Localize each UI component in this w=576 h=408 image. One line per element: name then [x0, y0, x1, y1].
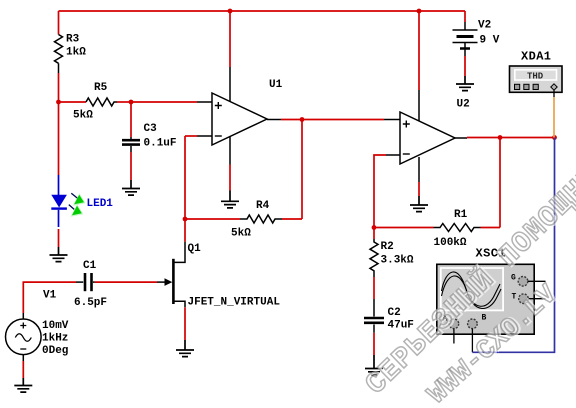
svg-text:1kΩ: 1kΩ — [66, 47, 86, 59]
transistor Q1 — [157, 242, 280, 309]
op-amp U2 — [400, 99, 470, 165]
resistor R2 — [370, 228, 414, 278]
wire gate Q1 — [95, 281, 157, 283]
svg-text:V2: V2 — [478, 20, 491, 32]
svg-text:U2: U2 — [457, 99, 470, 111]
ground V2 — [456, 76, 474, 91]
node out feedback — [498, 135, 503, 140]
svg-text:C3: C3 — [144, 123, 158, 135]
wire R1 up — [499, 138, 501, 228]
svg-text:R2: R2 — [381, 241, 394, 253]
node R1 R2 — [372, 225, 377, 230]
battery V2 — [453, 20, 500, 57]
ground C3 — [122, 180, 140, 195]
wire LED branch — [58, 102, 60, 175]
wire feedback minus U1 — [185, 135, 197, 137]
ground V1 — [14, 378, 32, 392]
wire node to U1 + — [131, 101, 197, 103]
wire V1 to C1 — [23, 282, 76, 313]
capacitor C1 — [74, 260, 107, 309]
svg-text:10mV: 10mV — [42, 320, 69, 332]
svg-text:R3: R3 — [66, 34, 80, 46]
ground C2 — [365, 355, 383, 375]
svg-text:6.5pF: 6.5pF — [74, 297, 107, 309]
node top U2 — [417, 9, 422, 14]
instrument XSC1 — [437, 247, 546, 353]
op-amp U1 — [212, 79, 283, 145]
wire V2 to ground — [464, 56, 466, 76]
wire LED to ground — [58, 229, 60, 247]
svg-text:0Deg: 0Deg — [42, 345, 68, 357]
svg-text:0.1uF: 0.1uF — [144, 138, 177, 150]
wire R2 to C2 — [373, 277, 375, 299]
svg-text:Q1: Q1 — [188, 243, 202, 255]
svg-text:JFET_N_VIRTUAL: JFET_N_VIRTUAL — [188, 297, 281, 309]
node junction left — [56, 100, 61, 105]
source V1 — [6, 290, 69, 362]
ground U2 — [410, 196, 428, 212]
wire U2 minus — [374, 155, 386, 228]
node out probe — [552, 135, 557, 140]
wire top rail — [59, 10, 466, 12]
U1 output pin — [267, 119, 281, 121]
svg-text:5kΩ: 5kΩ — [231, 228, 251, 240]
svg-text:LED1: LED1 — [87, 198, 114, 210]
svg-text:C2: C2 — [388, 307, 401, 319]
wire left rail to node — [58, 73, 60, 102]
wire U2 VEE — [418, 182, 420, 196]
wire Q1 source — [184, 307, 186, 340]
instrument XDA1 — [510, 50, 563, 98]
wire U2 VCC — [418, 11, 420, 90]
node U1 out — [300, 117, 305, 122]
wire out to U2 + — [302, 119, 384, 121]
wire VCC U1 — [229, 11, 231, 67]
wire left rail upper — [58, 11, 60, 35]
resistor R5 — [59, 82, 132, 122]
U1 VEE pin — [229, 137, 231, 165]
wire R4 up to out node — [301, 120, 303, 220]
svg-text:1kHz: 1kHz — [42, 333, 68, 345]
svg-text:THD: THD — [527, 72, 544, 82]
resistor R4 — [185, 200, 302, 240]
U1 - pin stub — [197, 135, 212, 137]
U1 VCC pin — [229, 67, 231, 102]
U2 output pin — [455, 137, 467, 139]
svg-text:5kΩ: 5kΩ — [73, 110, 93, 122]
capacitor C2 — [364, 299, 414, 333]
svg-text:V1: V1 — [43, 290, 57, 302]
wire C2 to ground — [373, 333, 375, 355]
svg-text:B: B — [482, 314, 487, 323]
U2 - pin stub — [386, 154, 400, 156]
svg-text:R4: R4 — [256, 200, 270, 212]
node R4 — [183, 217, 188, 222]
svg-text:U1: U1 — [269, 79, 283, 91]
ground LED — [50, 247, 68, 262]
watermark — [359, 146, 576, 408]
wire U1 VEE — [229, 165, 231, 191]
svg-text:T: T — [512, 293, 517, 302]
U2 VCC pin — [418, 90, 420, 121]
capacitor C3 — [122, 102, 177, 152]
wire drain Q1 — [184, 219, 186, 242]
wire XDA1 orange — [553, 97, 555, 138]
LED LED1 — [51, 175, 113, 227]
wire XSC1 blue — [472, 138, 554, 353]
LED arrow 2 — [69, 205, 74, 210]
svg-text:C1: C1 — [83, 260, 97, 272]
LED arrow 1 — [71, 193, 77, 198]
wire U1 out — [281, 119, 302, 121]
wire top to V2 — [464, 11, 466, 22]
wire C3 to ground — [130, 152, 132, 180]
svg-text:R5: R5 — [94, 82, 108, 94]
svg-text:100kΩ: 100kΩ — [434, 237, 467, 249]
resistor R3 — [55, 34, 87, 74]
wire U2 out — [467, 137, 555, 139]
node top U1 — [228, 9, 233, 14]
node junction C3 — [129, 100, 134, 105]
svg-text:R1: R1 — [454, 209, 468, 221]
svg-text:9 V: 9 V — [480, 35, 500, 47]
ground U1 — [221, 191, 239, 208]
svg-text:3.3kΩ: 3.3kΩ — [381, 255, 414, 267]
resistor R1 — [374, 209, 500, 249]
U2 VEE pin — [418, 157, 420, 182]
svg-text:XDA1: XDA1 — [521, 50, 551, 64]
wire V1 to ground — [22, 361, 24, 378]
ground Q1 — [176, 340, 194, 357]
